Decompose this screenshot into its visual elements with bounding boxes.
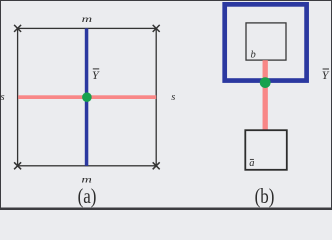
svg-text:s: s xyxy=(0,92,4,103)
label Y-bar (figure b) xyxy=(322,68,330,82)
mirror line s (horizontal pink) xyxy=(18,95,156,99)
label Y-bar (figure a) xyxy=(92,68,100,82)
blue thick square xyxy=(225,4,307,80)
corner mark bottom-left xyxy=(14,162,21,169)
square outline xyxy=(18,28,157,165)
svg-text:(b): (b) xyxy=(255,186,275,209)
green dot (figure b) xyxy=(260,77,271,88)
pink segment (figure b) xyxy=(263,60,268,130)
svg-text:(a): (a) xyxy=(78,186,97,209)
svg-text:m: m xyxy=(82,13,93,24)
svg-text:b: b xyxy=(251,49,256,60)
svg-text:s: s xyxy=(171,92,175,103)
inner square b xyxy=(246,23,286,60)
corner mark top-right xyxy=(153,25,160,32)
corner mark top-left xyxy=(14,25,21,32)
fixed point Y-bar (green dot, figure a) xyxy=(82,92,92,102)
svg-text:m: m xyxy=(81,174,92,185)
label a (lower square) xyxy=(249,158,254,169)
lower square a xyxy=(245,130,286,170)
mirror line m (vertical blue) xyxy=(85,28,89,165)
corner mark bottom-right xyxy=(153,162,160,169)
